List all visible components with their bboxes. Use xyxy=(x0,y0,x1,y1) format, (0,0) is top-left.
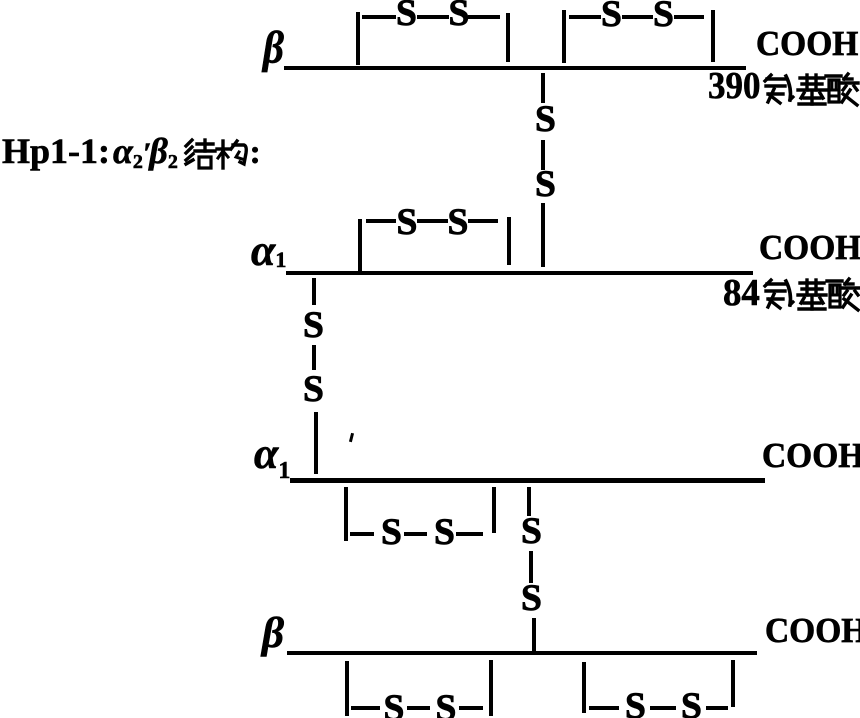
disulfide bridge 1 (chain1-chain2) tick a xyxy=(541,73,545,103)
chain4 loopB bottom dash a xyxy=(589,706,619,710)
chain1 disulfide loop2 right tick xyxy=(711,10,715,62)
chain4 loopB S letter 2 xyxy=(681,688,702,718)
chain4 disulfide loopB left tick xyxy=(582,662,586,713)
bridge2 tick c xyxy=(314,412,318,474)
chain1 COOH label xyxy=(756,27,858,62)
bridge1 tick b xyxy=(541,140,545,170)
chain1 disulfide loop1 left tick xyxy=(356,12,360,65)
chain4 loopA bottom dash c xyxy=(459,706,483,710)
bridge3 S upper xyxy=(521,513,542,551)
chain4 disulfide loopB right tick xyxy=(731,660,735,707)
title Hp1-1 xyxy=(2,133,110,169)
alpha1 chain 3 label xyxy=(254,432,290,485)
beta chain 1 label xyxy=(263,25,284,71)
chain4 loopA bottom dash a xyxy=(351,706,380,710)
chain4 loopB bottom dash b xyxy=(650,706,676,710)
alpha1 chain 2 backbone line xyxy=(286,271,753,275)
CJK glyph an (amino) chain1 xyxy=(762,72,795,107)
chain4 disulfide loopA left tick xyxy=(345,661,349,716)
chain4 loopA S letter 2 xyxy=(436,690,457,718)
chain3 loop S letter 1 xyxy=(381,514,402,552)
bridge3 tick c xyxy=(532,618,536,652)
bridge1 tick c xyxy=(541,203,545,267)
chain1 loop2 top dash b xyxy=(622,15,653,19)
title colon xyxy=(250,136,261,170)
chain1 loop1 top dash b xyxy=(417,15,449,19)
chain4 COOH label xyxy=(765,614,860,649)
alpha1 chain 3 backbone line xyxy=(290,478,765,483)
CJK glyph gou (structure-2) title xyxy=(217,140,247,170)
chain3 loop bottom dash b xyxy=(404,532,427,536)
bridge2 S upper xyxy=(303,307,324,345)
bridge2 S lower xyxy=(303,371,324,409)
chain3 loop bottom dash c xyxy=(456,532,483,536)
disulfide bridge 2 (chain2-chain3) tick a xyxy=(312,278,316,305)
chain1 disulfide loop1 right tick xyxy=(506,13,510,62)
chain1 loop1 top dash a xyxy=(362,15,396,19)
chain4 loopA bottom dash b xyxy=(407,706,430,710)
chain3 disulfide loop left tick xyxy=(344,487,348,541)
chain1 loop1 top dash c xyxy=(468,15,500,19)
bridge2 tick b xyxy=(312,345,316,370)
chain2 loop top dash c xyxy=(468,219,498,223)
bridge1 S lower xyxy=(535,166,556,204)
chain1 loop2 S letter 1 xyxy=(601,0,622,34)
CJK glyph suan (acid) chain2 xyxy=(827,277,860,312)
chain1 loop2 S letter 2 xyxy=(653,0,674,34)
CJK glyph ji (base) chain1 xyxy=(797,73,827,107)
CJK glyph ji (base) chain2 xyxy=(797,278,827,312)
CJK glyph jie (structure-1) title xyxy=(184,139,215,170)
chain1 loop1 S letter 1 xyxy=(396,0,417,33)
chain4 loopB S letter 1 xyxy=(625,688,646,718)
disulfide bridge 3 (chain3-chain4) tick a xyxy=(527,487,531,516)
bridge3 tick b xyxy=(529,551,533,583)
chain2 loop top dash a xyxy=(366,219,396,223)
chain3 loop bottom dash a xyxy=(350,532,374,536)
bridge3 S lower xyxy=(521,580,542,618)
chain1 loop1 S letter 2 xyxy=(449,0,470,33)
chain4 disulfide loopA right tick xyxy=(489,660,493,716)
chain2 COOH label xyxy=(759,231,860,266)
bridge1 S upper xyxy=(535,101,556,139)
chain2 loop top dash b xyxy=(417,219,448,223)
chain2 disulfide loop right tick xyxy=(507,217,511,265)
CJK glyph suan (acid) chain1 xyxy=(826,72,859,107)
chain1 disulfide loop2 left tick xyxy=(562,10,566,63)
chain4 loopB bottom dash c xyxy=(706,706,728,710)
beta chain 4 label xyxy=(262,612,284,655)
chain2 disulfide loop left tick xyxy=(358,219,362,271)
chain1 loop2 top dash a xyxy=(569,15,601,19)
chain3 loop S letter 2 xyxy=(434,514,455,552)
chain1 loop2 top dash c xyxy=(674,15,704,19)
title alpha2'beta2 xyxy=(113,133,178,174)
chain2 loop S letter 2 xyxy=(448,204,469,242)
alpha1 chain 2 label xyxy=(251,229,286,273)
chain3 COOH label xyxy=(762,439,860,474)
chain2 loop S letter 1 xyxy=(397,204,418,242)
stray apostrophe mark xyxy=(349,433,354,442)
beta chain 1 backbone line xyxy=(284,66,746,70)
chain1 residue count 390 amino acids xyxy=(708,67,760,105)
chain4 loopA S letter 1 xyxy=(384,690,405,718)
CJK glyph an (amino) chain2 xyxy=(762,277,795,312)
chain2 residue count 84 amino acids xyxy=(723,274,760,312)
beta chain 4 backbone line xyxy=(287,651,757,656)
chain3 disulfide loop right tick xyxy=(492,487,496,533)
